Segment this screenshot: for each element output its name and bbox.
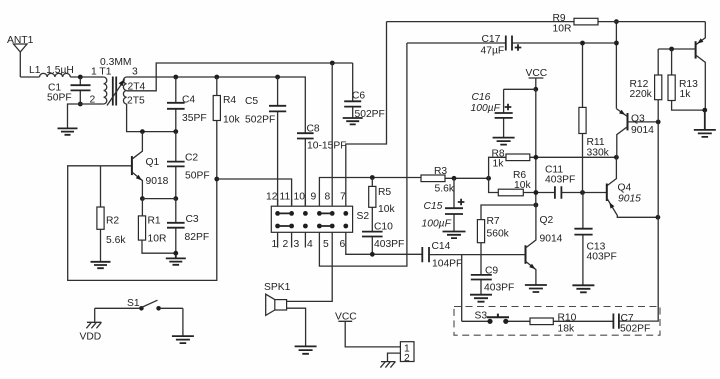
power VCC top [526,68,548,89]
svg-text:VDD: VDD [80,332,102,343]
capacitor C1 50PF [47,77,91,104]
svg-text:8: 8 [325,192,331,203]
node C4 top [173,75,178,80]
wire Q3 base column to C7 [619,122,658,321]
svg-text:Q2: Q2 [540,215,554,226]
svg-text:1k: 1k [680,89,692,100]
wire S2 pin7 riser [346,22,387,199]
antenna ANT1 [7,35,34,77]
ground below Q2 [525,285,547,292]
ground right of S1 [172,336,194,343]
capacitor C13 403PF [574,193,616,286]
svg-text:R1: R1 [148,216,161,227]
ground below C9 [470,295,492,302]
resistor R11 330k [579,43,610,193]
capacitor C17 47uF [407,34,617,57]
svg-text:100µF: 100µF [422,219,452,230]
svg-text:R2: R2 [106,216,119,227]
node R6 right on VCC column [534,190,539,195]
resistor R10 18k [508,313,613,335]
ground below C13 [572,285,594,292]
svg-text:10R: 10R [148,234,167,245]
wire S1 to ground [182,308,184,336]
resistor R1 10R [138,199,175,254]
svg-text:9014: 9014 [540,234,563,245]
node R11 top [580,41,585,46]
node Q1 emitter / R1 top [140,196,145,201]
transistor Q4 9015 [607,157,658,217]
node R3/R8/R6 junction [486,176,491,181]
svg-text:35PF: 35PF [182,113,207,124]
ground below C15 [443,232,466,239]
svg-text:Q3: Q3 [631,114,645,125]
transformer T1 primary winding [104,77,107,104]
svg-text:C14: C14 [432,241,451,252]
capacitor C11 403PF [545,165,607,199]
transformer T1 labels [90,57,146,107]
svg-text:C17: C17 [482,34,501,45]
svg-text:330k: 330k [587,148,610,159]
svg-text:C10: C10 [374,222,393,233]
node R9 right [614,19,619,24]
svg-text:Q1: Q1 [146,157,160,168]
node C15 top [452,176,457,181]
svg-text:C15: C15 [424,201,443,212]
node R5 top [370,175,375,180]
connector J1 pins 1 2 [400,342,414,364]
wire T1 tap 2T4 to top rail [127,63,353,91]
node R4 top [214,75,219,80]
capacitor C10 403PF [362,222,404,255]
svg-text:R3: R3 [434,166,447,177]
svg-text:S3: S3 [475,311,488,322]
wire C14 node to S3 branch [461,255,463,322]
svg-text:10k: 10k [223,115,240,126]
svg-text:C5: C5 [245,96,258,107]
capacitor C9 403PF [471,255,515,295]
capacitor C7 502PF [613,313,650,335]
svg-text:C4: C4 [182,95,195,106]
ground below C16 [493,138,515,145]
switch S1 [95,298,183,311]
wire S2 pin8 riser [331,63,333,199]
svg-text:502PF: 502PF [245,115,275,126]
node Q5 collector / R13 ground junction [702,108,707,113]
svg-text:2: 2 [283,239,289,250]
connector S2 pin labels top [266,192,346,203]
resistor R7 560k [477,205,536,255]
resistor R5 10k [369,178,396,232]
node C17 right [614,41,619,46]
ground below Q5 [694,110,716,137]
svg-text:2: 2 [404,353,410,364]
svg-text:18k: 18k [558,324,575,335]
resistor R2 5.6k [97,166,126,262]
wire R4 node to S2 pin11 [217,179,292,206]
ground below R1/C3 [166,253,186,265]
resistor R6 10k [489,170,555,196]
svg-text:R5: R5 [378,187,391,198]
svg-text:C9: C9 [485,266,498,277]
node C2/C3 junction [173,196,178,201]
node Q4 emitter / feedback column [656,215,661,220]
svg-text:9015: 9015 [618,194,641,205]
wire S2 pin4 to C17 riser [319,43,407,266]
capacitor C3 82PF [167,199,209,254]
wire T1 pin2 to ground [68,104,104,128]
svg-text:S1: S1 [127,298,140,309]
svg-text:12: 12 [266,192,278,203]
resistor R13 1k [668,49,705,110]
capacitor C8 10-15PF [297,124,347,207]
wire T1 2T5 to Q1 collector rail [127,104,176,132]
svg-text:11: 11 [280,192,291,203]
capacitor C4 35PF [167,77,207,132]
svg-text:C2: C2 [185,153,198,164]
svg-text:R4: R4 [223,95,236,106]
svg-text:6: 6 [340,239,346,250]
svg-text:47µF: 47µF [481,46,505,57]
svg-text:5.6k: 5.6k [435,184,455,195]
resistor R8 1k [489,149,617,179]
svg-text:100µF: 100µF [471,103,501,114]
svg-text:50PF: 50PF [185,171,210,182]
node R4 bottom / pin11 branch [214,177,219,182]
svg-text:1k: 1k [493,159,505,170]
svg-text:403PF: 403PF [587,252,617,263]
svg-text:R11: R11 [587,137,605,148]
svg-text:403PF: 403PF [484,283,514,294]
svg-text:9018: 9018 [146,176,169,187]
svg-text:4: 4 [307,239,313,250]
svg-text:R7: R7 [487,216,500,227]
speaker SPK1 [264,282,291,315]
node C1/T1 pin2 junction [78,102,83,107]
wire S2 pin9 to R3 rail [319,178,421,200]
transformer T1 secondary winding [123,77,126,104]
ground below C1 [58,128,78,134]
connector S2 contact dots row B [275,224,348,229]
chassis ground at connector [380,353,400,368]
svg-text:1: 1 [272,239,278,250]
resistor R12 220k [630,49,662,122]
power VCC bottom [335,312,400,347]
node L1/C1/T1 junction [78,75,83,80]
svg-text:9: 9 [311,192,317,203]
node pin8 riser on 2T4 rail [330,61,335,66]
switch S3 [475,311,510,324]
transistor Q3 9014 [616,109,658,158]
node R8 right on VCC column [534,155,539,160]
wire T1 pin3 rail [127,77,306,133]
svg-text:10k: 10k [514,180,531,191]
capacitor C2 50PF [167,132,210,199]
svg-text:560k: 560k [487,229,510,240]
svg-text:5.6k: 5.6k [106,235,126,246]
ground below C6 [343,118,363,124]
svg-text:2: 2 [90,95,96,106]
transformer T1 core [113,77,116,106]
svg-text:SPK1: SPK1 [264,282,291,293]
svg-text:2T5: 2T5 [127,96,145,107]
svg-text:C3: C3 [186,214,199,225]
node C10 bottom [370,252,375,257]
wire VCC column [504,89,536,205]
svg-text:220k: 220k [630,89,653,100]
wire SPK1 to ground [287,308,306,346]
svg-text:403PF: 403PF [545,175,575,186]
svg-text:50PF: 50PF [47,93,72,104]
svg-text:C8: C8 [307,124,320,135]
capacitor C6 502PF [344,63,385,120]
wire Q1 base feedback loop [68,166,217,281]
node R1/C3 ground junction [173,251,178,256]
resistor R4 10k [213,77,240,179]
connector S2 pin stubs bottom 1-3 [278,232,306,247]
connector S2 body [271,206,352,232]
svg-text:5: 5 [323,239,329,250]
capacitor C5 502PF [245,77,286,206]
wire Q1 emitter rail [142,198,175,200]
wire S2 pin5 to speaker [287,232,333,301]
transistor Q2 9014 [526,205,563,285]
connector S2 pin labels bottom [272,239,346,250]
svg-text:3: 3 [294,239,300,250]
svg-text:82PF: 82PF [185,232,210,243]
svg-text:L1 1.5µH: L1 1.5µH [29,65,74,76]
svg-text:10k: 10k [378,204,395,215]
transistor Q1 9018 [101,132,169,199]
transformer T1 tuning arrow [107,79,125,106]
wire L1 to T1 pin1 [70,76,103,78]
svg-text:502PF: 502PF [620,324,650,335]
node C4/C2 junction [173,129,178,134]
svg-text:10-15PF: 10-15PF [307,141,347,152]
connector S2 contact dots row A [275,211,348,216]
ground below SPK1 [295,346,317,353]
svg-text:3: 3 [132,67,138,78]
transistor Q5 output [658,22,705,111]
resistor R9 10R [387,13,706,35]
svg-text:403PF: 403PF [374,239,404,250]
node R11 bottom / C13 top [580,190,585,195]
node R7 top on VCC column [534,203,539,208]
wire supply column x616 [615,22,617,109]
svg-text:R9: R9 [553,13,566,24]
wire S2 pin6 to C14 rail [346,232,423,254]
svg-text:ANT1: ANT1 [7,35,34,46]
svg-text:1 T1: 1 T1 [91,67,112,78]
svg-text:C7: C7 [621,313,634,324]
connector S2 shorting bars [278,213,333,226]
capacitor C16 100uF [471,89,513,137]
svg-text:104PF: 104PF [432,259,462,270]
inductor L1 1.5uH [29,65,74,77]
node VCC / C16 [533,87,538,92]
wire S3 input [462,320,488,322]
resistor R3 5.6k [421,166,489,195]
power VDD flag [80,308,102,342]
svg-text:C6: C6 [352,91,365,102]
node Q3 base / R12 column [656,120,661,125]
svg-text:10: 10 [294,192,306,203]
svg-text:R10: R10 [558,313,577,324]
capacitor C15 100uF [422,178,465,231]
node R13 top [669,47,674,52]
node Q3/Q4 collector junction [614,155,619,160]
connector S2 pin stubs top [278,199,346,206]
svg-text:9014: 9014 [631,125,654,136]
dashed feedback box [454,307,660,336]
svg-text:10R: 10R [553,24,572,35]
svg-text:7: 7 [340,192,346,203]
svg-text:C16: C16 [472,92,491,103]
wire antenna to L1 [20,76,39,78]
ground below R2 [91,262,111,268]
node Q1 collector [140,129,145,134]
node C5 top [275,75,280,80]
svg-text:S2: S2 [357,211,370,222]
svg-text:Q4: Q4 [618,183,632,194]
capacitor C14 104PF [422,241,525,270]
